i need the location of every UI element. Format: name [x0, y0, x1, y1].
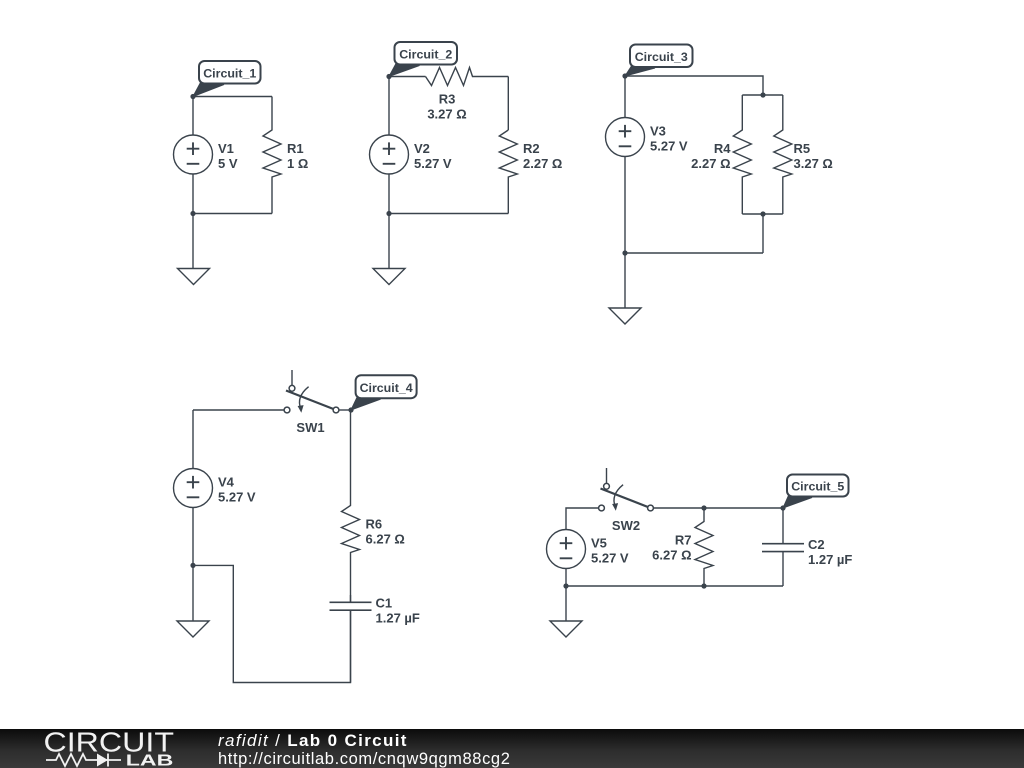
svg-text:1.27 µF: 1.27 µF: [376, 611, 420, 626]
net flag Circuit_4: [351, 397, 381, 410]
node: Circuit_2 labeled net node: [386, 74, 391, 79]
svg-text:6.27 Ω: 6.27 Ω: [366, 532, 405, 547]
resistor R6, 6.27 Ω: [342, 410, 360, 602]
net flag Circuit_1: [193, 83, 224, 97]
wire: Circuit_3 top rail: [625, 76, 763, 95]
svg-text:V1: V1: [218, 141, 234, 156]
net flag Circuit_3: [625, 66, 655, 76]
svg-text:V4: V4: [218, 475, 235, 490]
resistor R7, 6.27 Ω: [695, 508, 713, 586]
resistor R3, 3.27 Ω: [426, 68, 509, 86]
svg-text:V3: V3: [650, 124, 666, 139]
node: Circuit_5 labeled net node: [780, 505, 785, 510]
svg-text:R6: R6: [366, 517, 383, 532]
wire: Circuit_3 parallel bottom bar: [742, 213, 783, 215]
voltage source V3, 5.27 V: [606, 118, 645, 157]
ground: Circuit_5: [550, 621, 582, 637]
svg-text:1.27 µF: 1.27 µF: [808, 552, 852, 567]
voltage source V4, 5.27 V: [174, 469, 213, 508]
svg-text:5.27 V: 5.27 V: [650, 139, 688, 154]
voltage source V5, 5.27 V: [547, 530, 586, 569]
svg-text:R5: R5: [794, 141, 811, 156]
node: parallel top junction: [760, 92, 765, 97]
node: Circuit_1 labeled net node: [190, 94, 195, 99]
svg-text:V2: V2: [414, 141, 430, 156]
svg-text:5 V: 5 V: [218, 156, 238, 171]
node: junction on Circuit_1 bottom rail: [190, 211, 195, 216]
svg-text:R7: R7: [675, 533, 692, 548]
svg-text:5.27 V: 5.27 V: [591, 551, 629, 566]
wire: Circuit_2 right rail: [507, 77, 509, 131]
svg-text:6.27 Ω: 6.27 Ω: [652, 548, 691, 563]
svg-text:Circuit_2: Circuit_2: [399, 47, 452, 61]
wire: Circuit_5 bottom rail: [566, 585, 783, 587]
wire: Circuit_2 left rail (source leads): [388, 77, 390, 214]
svg-text:Circuit_1: Circuit_1: [203, 66, 256, 80]
wire: switch SW2 to C2 branch: [651, 507, 784, 509]
wire: Circuit_4 top-left segment to switch: [193, 409, 287, 411]
voltage source V2, 5.27 V: [370, 135, 409, 174]
node: junction R7 top: [701, 505, 706, 510]
svg-text:R1: R1: [287, 141, 304, 156]
ground: Circuit_4: [177, 621, 209, 637]
wire: Circuit_3 parallel top bar: [742, 94, 783, 96]
wire: Circuit_1 top rail: [193, 96, 272, 98]
svg-text:R3: R3: [439, 92, 456, 107]
switch SW2: [606, 468, 608, 484]
node: parallel bottom junction: [760, 211, 765, 216]
wire: Circuit_1 bottom rail: [193, 213, 272, 215]
wire: switch SW1 to node: [336, 409, 351, 411]
wire: Circuit_2 bottom rail: [389, 213, 508, 215]
node: junction R7 bottom: [701, 583, 706, 588]
svg-text:Circuit_3: Circuit_3: [635, 50, 688, 64]
ground: Circuit_1: [178, 269, 210, 285]
resistor R5, 3.27 Ω: [774, 95, 792, 214]
node: junction at V4 minus / ground: [190, 563, 195, 568]
resistor R1, 1 Ω: [263, 97, 281, 214]
wire: Circuit_1 ground stem: [192, 214, 194, 269]
svg-text:5.27 V: 5.27 V: [218, 490, 256, 505]
wire: Circuit_3 left rail (source leads): [624, 76, 626, 253]
node: Circuit_3 labeled net node: [622, 73, 627, 78]
node: Circuit_4 labeled net node: [348, 407, 353, 412]
svg-text:LAB: LAB: [126, 753, 174, 768]
wire: Circuit_2 top-left segment: [389, 76, 426, 78]
ground: Circuit_3: [609, 308, 641, 324]
svg-text:V5: V5: [591, 536, 607, 551]
svg-text:3.27 Ω: 3.27 Ω: [427, 107, 466, 122]
svg-text:2.27 Ω: 2.27 Ω: [523, 156, 562, 171]
wire: Circuit_3 bottom rail: [625, 252, 763, 254]
svg-text:C1: C1: [376, 596, 393, 611]
resistor R4, 2.27 Ω: [733, 95, 751, 214]
svg-text:http://circuitlab.com/cnqw9qgm: http://circuitlab.com/cnqw9qgm88cg2: [218, 750, 510, 768]
svg-text:R4: R4: [714, 141, 731, 156]
CircuitLab logo resistor-diode glyph: [46, 754, 121, 767]
wire: Circuit_1 left rail (source leads): [192, 97, 194, 214]
svg-text:R2: R2: [523, 141, 540, 156]
svg-text:SW1: SW1: [296, 420, 324, 435]
wire: Circuit_3 right drop to bottom rail: [762, 214, 764, 253]
wire: Circuit_4 ground stem: [192, 565, 194, 621]
svg-text:1 Ω: 1 Ω: [287, 156, 308, 171]
net flag Circuit_2: [389, 64, 420, 77]
wire: V5 top lead to switch: [566, 508, 602, 530]
capacitor C1, 1.27 µF: [350, 595, 352, 602]
wire: Circuit_2 ground stem: [388, 214, 390, 269]
svg-text:C2: C2: [808, 537, 825, 552]
wire: Circuit_4 return path bottom: [193, 565, 351, 682]
wire: Circuit_4 left rail (source leads): [192, 410, 194, 565]
svg-text:3.27 Ω: 3.27 Ω: [794, 156, 833, 171]
capacitor C2, 1.27 µF: [782, 508, 784, 544]
ground: Circuit_2: [373, 269, 405, 285]
resistor R2, 2.27 Ω: [499, 130, 517, 214]
switch SW1: [291, 370, 293, 386]
svg-text:rafidit / Lab 0 Circuit: rafidit / Lab 0 Circuit: [218, 731, 408, 750]
wire: Circuit_5 ground stem: [565, 586, 567, 621]
net flag Circuit_5: [783, 496, 812, 509]
svg-text:Circuit_4: Circuit_4: [360, 381, 413, 395]
svg-text:2.27 Ω: 2.27 Ω: [691, 156, 730, 171]
svg-text:5.27 V: 5.27 V: [414, 156, 452, 171]
voltage source V1, 5 V: [174, 135, 213, 174]
svg-text:Circuit_5: Circuit_5: [791, 480, 844, 494]
node: junction V5 bottom: [563, 583, 568, 588]
svg-text:SW2: SW2: [612, 518, 640, 533]
node: junction on Circuit_3 bottom rail: [622, 250, 627, 255]
wire: V5 bottom lead: [565, 569, 567, 587]
node: junction on Circuit_2 bottom rail: [386, 211, 391, 216]
wire: Circuit_3 ground stem: [624, 253, 626, 308]
